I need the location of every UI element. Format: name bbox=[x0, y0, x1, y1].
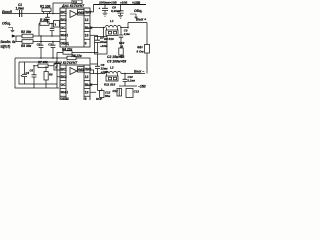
svg-text:0,1мк: 0,1мк bbox=[128, 79, 136, 83]
svg-text:ВХ2: ВХ2 bbox=[61, 75, 67, 79]
svg-text:R4 22к: R4 22к bbox=[62, 47, 73, 51]
svg-text:С3: С3 bbox=[48, 43, 52, 47]
svg-text:R13: R13 bbox=[96, 97, 102, 100]
svg-text:УМЗ: УМЗ bbox=[77, 68, 84, 72]
svg-text:ДА2 К174УН7: ДА2 К174УН7 bbox=[54, 61, 78, 65]
svg-text:ВХ1: ВХ1 bbox=[61, 10, 67, 14]
svg-text:+: + bbox=[21, 74, 23, 78]
svg-text:ФНЧ: ФНЧ bbox=[61, 91, 69, 95]
svg-text:R1 100: R1 100 bbox=[40, 5, 51, 9]
svg-text:12: 12 bbox=[85, 18, 89, 22]
svg-text:ОБЩ: ОБЩ bbox=[61, 42, 70, 46]
svg-text:R11 510: R11 510 bbox=[104, 82, 115, 86]
svg-text:R12: R12 bbox=[113, 89, 119, 93]
svg-text:СА: СА bbox=[73, 0, 77, 4]
svg-text:ПИТ: ПИТ bbox=[85, 67, 92, 71]
svg-text:С3 100м×63: С3 100м×63 bbox=[107, 60, 126, 64]
svg-text:Вых +: Вых + bbox=[136, 17, 146, 21]
svg-text:L2: L2 bbox=[110, 66, 114, 70]
svg-text:R5 22к: R5 22к bbox=[72, 54, 83, 58]
svg-text:9: 9 bbox=[85, 42, 87, 46]
svg-text:ФНЧ: ФНЧ bbox=[61, 34, 69, 38]
svg-text:+15В: +15В bbox=[132, 1, 141, 5]
svg-text:10: 10 bbox=[85, 91, 89, 95]
svg-text:8 Ом: 8 Ом bbox=[137, 49, 145, 53]
svg-text:Общ.: Общ. bbox=[2, 22, 11, 26]
svg-text:2,0м: 2,0м bbox=[123, 32, 131, 36]
svg-text:ВЫХ: ВЫХ bbox=[85, 83, 93, 87]
svg-text:С2: С2 bbox=[37, 43, 41, 47]
svg-text:+10В: +10В bbox=[100, 44, 108, 48]
svg-text:0,33мк: 0,33мк bbox=[111, 9, 121, 13]
svg-text:ОС: ОС bbox=[61, 26, 66, 30]
svg-text:С2 15м×63: С2 15м×63 bbox=[107, 55, 124, 59]
svg-text:R7 680: R7 680 bbox=[38, 60, 48, 64]
svg-text:+: + bbox=[99, 6, 101, 10]
svg-text:Щ(0,5): Щ(0,5) bbox=[1, 45, 11, 49]
svg-text:Вых −: Вых − bbox=[134, 69, 144, 73]
svg-text:С5: С5 bbox=[30, 69, 34, 73]
svg-text:+10В: +10В bbox=[120, 0, 128, 4]
svg-text:УМЗ: УМЗ bbox=[77, 11, 84, 15]
svg-text:R2 36к: R2 36к bbox=[21, 30, 32, 34]
svg-text:1,0мк: 1,0мк bbox=[16, 7, 25, 11]
svg-text:ДА1 К174УН7: ДА1 К174УН7 bbox=[61, 4, 85, 8]
svg-text:Общ.: Общ. bbox=[134, 9, 142, 13]
svg-text:Вход: Вход bbox=[2, 9, 12, 14]
svg-text:R 30к: R 30к bbox=[40, 18, 49, 22]
svg-text:R6: R6 bbox=[49, 73, 53, 77]
svg-text:+10В: +10В bbox=[101, 70, 109, 74]
svg-text:ВХ1: ВХ1 bbox=[61, 67, 67, 71]
svg-text:R3 36к: R3 36к bbox=[21, 44, 32, 48]
svg-text:10: 10 bbox=[120, 44, 124, 48]
svg-text:ВЫХ: ВЫХ bbox=[85, 26, 93, 30]
svg-text:С13: С13 bbox=[134, 90, 140, 94]
svg-text:−15В: −15В bbox=[138, 85, 146, 89]
svg-text:9: 9 bbox=[85, 97, 87, 100]
svg-text:12: 12 bbox=[85, 75, 89, 79]
svg-text:ПИТ: ПИТ bbox=[85, 10, 92, 14]
svg-text:1000мк×10В: 1000мк×10В bbox=[99, 0, 118, 4]
svg-text:10: 10 bbox=[85, 34, 89, 38]
svg-text:L1: L1 bbox=[110, 19, 114, 23]
svg-text:ОС: ОС bbox=[61, 83, 66, 87]
svg-text:ОБЩ: ОБЩ bbox=[61, 97, 70, 100]
svg-text:ВХ2: ВХ2 bbox=[61, 18, 67, 22]
